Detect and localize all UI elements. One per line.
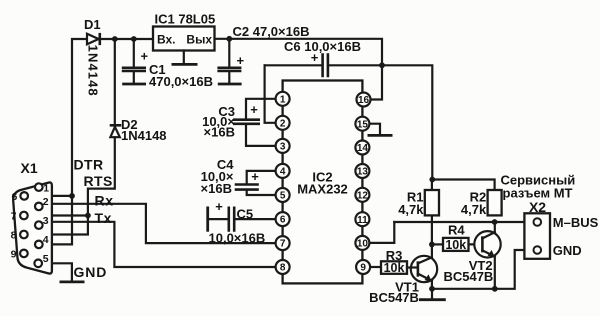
wire DTR rail from D1 anode down-left to X1 pin 4 bbox=[42, 39, 87, 244]
node VT2 emitter on ground rail bbox=[492, 286, 498, 292]
svg-text:X2: X2 bbox=[529, 199, 546, 215]
pin 6 bbox=[276, 212, 290, 226]
wire R1 bottom down across M-BUS to R4 node bbox=[431, 215, 433, 244]
wire X1 pin 5 to ground bbox=[42, 263, 72, 281]
svg-text:×16В: ×16В bbox=[204, 124, 235, 139]
svg-text:9: 9 bbox=[360, 263, 366, 274]
pin 13 bbox=[355, 164, 369, 178]
svg-text:470,0×16В: 470,0×16В bbox=[149, 74, 213, 89]
svg-text:IC1 78L05: IC1 78L05 bbox=[155, 12, 216, 27]
svg-text:2: 2 bbox=[280, 118, 286, 129]
wire Tx from X1 pin 3 to IC2 pin 8 bbox=[42, 222, 276, 267]
svg-text:5: 5 bbox=[280, 191, 286, 202]
svg-text:16: 16 bbox=[358, 95, 370, 106]
wire IC2 pin 2 to V+ rail bbox=[265, 65, 276, 123]
wire ground stub below VT1 bbox=[431, 289, 433, 299]
wire IC2 pin 15 to ground bbox=[369, 124, 380, 135]
wire feed to R2 top bbox=[432, 180, 494, 191]
diode D2 bbox=[110, 125, 122, 137]
capacitor C6 bbox=[323, 53, 328, 77]
svg-text:C2 47,0×16В: C2 47,0×16В bbox=[233, 24, 310, 39]
pin 15 bbox=[355, 117, 369, 131]
pin 4 bbox=[276, 164, 290, 178]
svg-text:10k: 10k bbox=[445, 238, 466, 252]
pin 14 bbox=[355, 141, 369, 155]
wire IC2 pin 6 to C5 bbox=[235, 218, 276, 220]
wire IC2 pin 9 to R3 bbox=[371, 266, 382, 268]
svg-text:GND: GND bbox=[553, 243, 582, 258]
pin 7 bbox=[276, 236, 290, 250]
svg-text:+: + bbox=[215, 199, 223, 214]
wire feed to R1 top bbox=[431, 180, 433, 191]
svg-text:8: 8 bbox=[280, 263, 286, 274]
wire VT2 emitter down to ground rail bbox=[494, 257, 496, 289]
wire Rx from X1 pin 2 to IC2 pin 7 bbox=[42, 204, 276, 243]
svg-text:1: 1 bbox=[280, 94, 286, 105]
wire VT1 collector up to node bbox=[431, 244, 433, 257]
X2 contact GND bbox=[534, 246, 542, 254]
pin 8 bbox=[276, 260, 290, 274]
svg-text:MAX232: MAX232 bbox=[297, 182, 348, 197]
ground bar pin15 bbox=[368, 134, 393, 137]
X1 pin 1 bbox=[35, 183, 43, 191]
node D2 tap on +U rail bbox=[112, 36, 118, 42]
svg-text:+: + bbox=[141, 49, 149, 64]
svg-text:RTS: RTS bbox=[84, 173, 113, 189]
svg-text:4,7k: 4,7k bbox=[398, 202, 424, 217]
resistor R3 bbox=[381, 261, 407, 274]
svg-text:4: 4 bbox=[43, 234, 49, 246]
X2 contact M-BUS bbox=[534, 218, 542, 226]
X1 pin 8 bbox=[20, 231, 28, 239]
pin 12 bbox=[355, 188, 369, 202]
svg-text:12: 12 bbox=[357, 190, 369, 201]
pin 3 bbox=[276, 139, 290, 153]
wire V+ rail through C6 row left part bbox=[265, 64, 322, 66]
svg-text:2: 2 bbox=[43, 196, 49, 208]
X1 pin 7 bbox=[20, 212, 28, 220]
svg-text:15: 15 bbox=[357, 119, 369, 130]
X1 pin 3 bbox=[35, 221, 43, 229]
svg-text:11: 11 bbox=[357, 215, 368, 226]
X1 pin 4 bbox=[35, 241, 43, 249]
pin 1 bbox=[276, 92, 290, 106]
node C2 tap on rail bbox=[226, 36, 232, 42]
capacitor C5 bbox=[229, 207, 234, 232]
resistor R1 bbox=[425, 190, 439, 215]
capacitor C3 bbox=[233, 120, 260, 124]
svg-text:4,7k: 4,7k bbox=[461, 202, 487, 217]
wire D1 cathode to IC1 input bbox=[101, 38, 153, 40]
transistor VT1 bbox=[407, 256, 437, 282]
wire VT2 collector to M-BUS node bbox=[494, 222, 496, 232]
svg-text:C5: C5 bbox=[237, 206, 254, 221]
svg-text:7: 7 bbox=[11, 211, 17, 223]
svg-text:BC547B: BC547B bbox=[443, 269, 493, 284]
node C1 tap on +U rail bbox=[131, 36, 137, 42]
svg-text:14: 14 bbox=[357, 143, 369, 154]
svg-text:Rx: Rx bbox=[95, 193, 114, 209]
wire RTS from D2 to X1 pins 7 and 8 bbox=[28, 137, 115, 234]
svg-text:+: + bbox=[250, 102, 258, 117]
node RTS/pin7 junction bbox=[85, 213, 91, 219]
capacitor C4 bbox=[235, 185, 259, 190]
svg-text:1N4148: 1N4148 bbox=[85, 45, 100, 97]
svg-text:7: 7 bbox=[280, 239, 286, 250]
node DTR/pin6 junction bbox=[69, 193, 75, 199]
svg-text:13: 13 bbox=[357, 167, 369, 178]
svg-text:Tx: Tx bbox=[95, 210, 113, 226]
pin 11 bbox=[355, 212, 369, 226]
svg-text:10: 10 bbox=[357, 239, 369, 250]
voltage regulator IC1 78L05 bbox=[153, 27, 215, 65]
svg-text:+: + bbox=[237, 53, 245, 68]
wire node to R4 left bbox=[432, 243, 443, 245]
wire R4 right to VT2 base bbox=[469, 243, 483, 245]
svg-text:6: 6 bbox=[280, 215, 286, 226]
node VT1 emitter / ground rail bbox=[429, 286, 435, 292]
wire C4 minus to IC2 pin 5 bbox=[247, 190, 276, 195]
capacitor C2 bbox=[217, 39, 241, 84]
wire bottom ground rail to X2 GND bbox=[432, 250, 534, 289]
wire D2 branch down from rail bbox=[114, 39, 116, 124]
wire X1 pin 7 to RTS junction bbox=[28, 214, 88, 216]
svg-text:DTR: DTR bbox=[74, 157, 104, 173]
wire C5 to ground bar bbox=[208, 218, 228, 220]
svg-text:10k: 10k bbox=[384, 261, 405, 275]
svg-text:1: 1 bbox=[43, 182, 49, 194]
capacitor C1 bbox=[122, 39, 146, 84]
resistor R2 bbox=[488, 190, 502, 215]
svg-text:×16В: ×16В bbox=[201, 181, 232, 196]
svg-text:Вх.: Вх. bbox=[157, 33, 176, 47]
ground bar C5 bbox=[206, 207, 209, 232]
X1 pin 9 bbox=[20, 250, 28, 258]
svg-text:8: 8 bbox=[11, 230, 17, 242]
svg-text:+: + bbox=[251, 169, 259, 184]
wire M-BUS rail to X2 bbox=[394, 221, 533, 223]
connector X1 DB9 body bbox=[13, 182, 52, 273]
pin 2 bbox=[276, 116, 290, 130]
X1 pin 6 bbox=[20, 192, 28, 200]
IC2 MAX232 body bbox=[283, 81, 363, 284]
node R2/VT2 collector on M-BUS bbox=[492, 219, 498, 225]
wire C3 minus to IC2 pin 3 bbox=[246, 125, 276, 146]
svg-text:BC547B: BC547B bbox=[369, 290, 419, 305]
ground bar X1 bbox=[60, 280, 85, 283]
pin 10 bbox=[355, 236, 369, 250]
svg-text:+: + bbox=[311, 50, 319, 65]
ground bar below VT1 bbox=[419, 298, 446, 301]
svg-text:1N4148: 1N4148 bbox=[121, 128, 167, 143]
connector X2 body bbox=[524, 213, 550, 258]
wire IC1 output rail to corner above pin 16 bbox=[215, 39, 383, 100]
X1 pin 5 bbox=[34, 260, 42, 268]
svg-text:3: 3 bbox=[43, 215, 49, 227]
svg-text:R4: R4 bbox=[448, 223, 465, 238]
X1 pin 2 bbox=[35, 203, 43, 211]
svg-text:9: 9 bbox=[11, 248, 17, 260]
node R1/R2 feed junction bbox=[429, 177, 435, 183]
wire X1 pin 6 to DTR line bbox=[28, 195, 72, 197]
svg-text:10,0×16В: 10,0×16В bbox=[209, 230, 266, 245]
svg-text:6: 6 bbox=[11, 191, 17, 203]
node R1/R4/VT1 collector junction bbox=[429, 242, 435, 248]
svg-text:D1: D1 bbox=[84, 17, 101, 32]
pin 5 bbox=[276, 188, 290, 202]
wire VT1 emitter down to ground rail bbox=[431, 281, 433, 289]
svg-text:M–BUS: M–BUS bbox=[553, 215, 599, 230]
svg-text:4: 4 bbox=[280, 167, 286, 178]
wire IC2 pin 4 to C4 plus bbox=[247, 171, 276, 184]
wire V+ rail C6 to R1 R2 feed bbox=[329, 65, 432, 179]
diode D1 bbox=[87, 33, 100, 45]
svg-text:X1: X1 bbox=[21, 160, 38, 176]
pin 16 bbox=[357, 93, 371, 107]
svg-text:5: 5 bbox=[43, 253, 49, 265]
svg-text:C6 10,0×16В: C6 10,0×16В bbox=[284, 39, 361, 54]
transistor VT2 bbox=[474, 231, 500, 257]
node C6/Vcc/pin16 junction bbox=[379, 62, 385, 68]
wire IC2 pin 10 to M-BUS rail bbox=[369, 222, 394, 243]
svg-text:Вых: Вых bbox=[186, 33, 212, 47]
wire IC2 pin 1 to C3 plus bbox=[246, 99, 276, 119]
pin 9 bbox=[356, 260, 370, 274]
resistor R4 bbox=[443, 238, 469, 251]
svg-text:3: 3 bbox=[280, 142, 286, 153]
svg-text:GND: GND bbox=[74, 264, 108, 280]
